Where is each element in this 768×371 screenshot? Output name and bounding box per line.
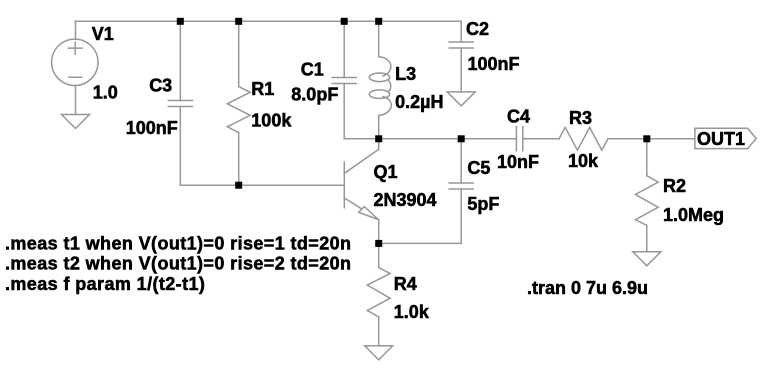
svg-text:1.0k: 1.0k	[394, 302, 430, 322]
wire V1 top lead	[75, 21, 77, 39]
wire V1 bottom lead	[75, 86, 77, 115]
junction dot R2 top	[643, 135, 650, 142]
node OUT1 flag	[695, 128, 756, 148]
ground (R4)	[365, 346, 393, 360]
svg-text:R1: R1	[251, 79, 274, 99]
svg-text:0.2µH: 0.2µH	[395, 92, 443, 112]
ground (V1)	[62, 115, 90, 129]
wire emitter rail	[379, 242, 462, 244]
capacitor C1	[332, 78, 356, 84]
wire mid rail left	[344, 138, 516, 140]
wire C5 top lead	[460, 139, 462, 183]
svg-text:100nF: 100nF	[126, 118, 178, 138]
wire R4 bottom lead	[378, 317, 380, 346]
svg-text:1.0: 1.0	[93, 83, 118, 103]
svg-text:5pF: 5pF	[467, 194, 499, 214]
wire C1 top lead	[343, 21, 345, 77]
wire C3 bottom lead	[179, 107, 181, 186]
junction dot top L3	[375, 18, 382, 25]
capacitor C3	[168, 101, 192, 107]
wire R2 top lead	[646, 139, 648, 176]
wire mid rail right2	[608, 138, 695, 140]
junction dot C5 top	[458, 135, 465, 142]
svg-text:1.0Meg: 1.0Meg	[663, 205, 724, 225]
junction dot top C1	[341, 18, 348, 25]
svg-text:Q1: Q1	[374, 162, 398, 182]
resistor R1	[227, 87, 250, 133]
svg-text:V1: V1	[92, 24, 114, 44]
wire R2 bottom lead	[646, 225, 648, 251]
svg-text:OUT1: OUT1	[697, 129, 745, 149]
svg-text:.meas t2 when V(out1)=0 rise=2: .meas t2 when V(out1)=0 rise=2 td=20n	[5, 254, 351, 274]
svg-text:R4: R4	[394, 274, 417, 294]
junction dot base R1	[235, 182, 242, 189]
wire C1 bottom lead	[343, 84, 345, 139]
svg-text:C2: C2	[466, 19, 489, 39]
svg-text:R2: R2	[663, 176, 686, 196]
svg-text:.meas t1 when V(out1)=0 rise=1: .meas t1 when V(out1)=0 rise=1 td=20n	[5, 234, 351, 254]
svg-text:R3: R3	[569, 108, 592, 128]
svg-text:10nF: 10nF	[497, 152, 539, 172]
svg-text:2N3904: 2N3904	[374, 190, 437, 210]
junction dot top R1	[235, 18, 242, 25]
svg-text:C5: C5	[467, 158, 490, 178]
svg-text:100k: 100k	[251, 111, 292, 131]
wire top rail	[76, 20, 462, 22]
svg-text:C4: C4	[507, 107, 530, 127]
svg-text:10k: 10k	[568, 151, 599, 171]
resistor R4	[367, 268, 390, 317]
svg-text:.tran 0 7u 6.9u: .tran 0 7u 6.9u	[527, 278, 648, 298]
wire C3 top lead	[179, 21, 181, 100]
wire R1 bottom lead	[238, 133, 240, 186]
inductor L3	[379, 57, 391, 76]
junction dot emitter	[375, 240, 382, 247]
voltage source V1	[52, 39, 98, 85]
wire mid rail right1	[523, 138, 559, 140]
ground (R2)	[633, 252, 661, 266]
ground (C2)	[447, 92, 475, 106]
svg-text:C3: C3	[149, 76, 172, 96]
capacitor C2	[449, 42, 473, 48]
junction dot collector	[375, 135, 382, 142]
wire base rail	[180, 184, 344, 186]
junction dot top C3	[177, 18, 184, 25]
svg-text:100nF: 100nF	[468, 54, 520, 74]
wire R1 top lead	[238, 21, 240, 86]
resistor R2	[635, 176, 658, 226]
wire L3 bottom lead	[378, 116, 380, 139]
wire L3 top lead	[378, 21, 380, 56]
svg-text:8.0pF: 8.0pF	[291, 84, 338, 104]
wire C5 bottom lead	[460, 189, 462, 243]
wire C2 bottom lead	[460, 48, 462, 92]
resistor R3	[559, 127, 608, 150]
capacitor C4	[516, 127, 522, 151]
svg-text:.meas f param 1/(t2-t1): .meas f param 1/(t2-t1)	[5, 274, 205, 294]
svg-text:C1: C1	[301, 60, 324, 80]
wire C2 corner lead	[460, 21, 462, 42]
capacitor C5	[449, 183, 473, 189]
svg-text:L3: L3	[395, 64, 416, 84]
wire R4 top lead	[378, 243, 380, 267]
transistor Q1	[343, 162, 345, 208]
